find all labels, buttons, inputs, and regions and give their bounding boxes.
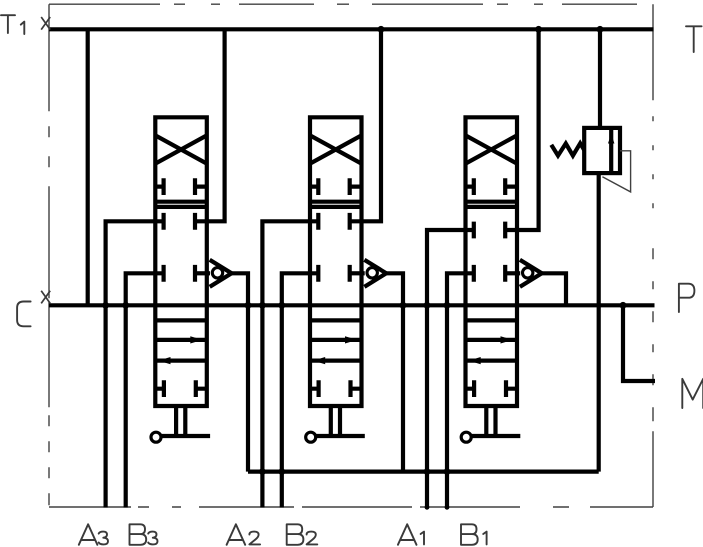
valve section 2 work-port row (position 2) — [318, 213, 349, 230]
port label T1 — [1, 15, 24, 34]
wire: section 3 check valve output — [232, 273, 248, 471]
valve section 3 work-port row (position 2) — [164, 213, 195, 230]
wire: T rail to P/C gallery (open center) — [86, 29, 90, 305]
wire: section 3 tank branch to T rail — [195, 29, 225, 221]
manual lever actuator of section 3 — [151, 406, 210, 442]
P / C pressure gallery line — [49, 303, 655, 307]
valve section 2 blocked-port row (position 3 bottom) — [310, 380, 362, 397]
T tank rail — [49, 27, 654, 31]
bottom tank return line — [248, 470, 599, 474]
valve section 1 blocked-port row (position 1 bottom) — [466, 178, 518, 195]
port marker x at C — [41, 291, 50, 304]
valve section 3 crossed-arrows position — [155, 135, 207, 163]
check valve of section 3 — [195, 260, 232, 287]
valve section 2 body outline — [310, 117, 362, 406]
manual lever actuator of section 2 — [306, 406, 365, 442]
valve section 3 work-port row (position 3) — [164, 265, 195, 282]
port label P — [679, 284, 695, 312]
port marker x at T1 — [41, 17, 50, 30]
wire: section 1 B work-port line — [447, 273, 474, 507]
valve section 1 work-port row (position 3) — [474, 265, 505, 282]
check valve of section 1 — [505, 260, 542, 287]
port label M — [682, 379, 703, 408]
wire: section 3 B work-port line — [126, 273, 164, 507]
valve section 3 body outline — [155, 117, 207, 406]
wire: section 1 A work-port line — [427, 230, 474, 508]
valve section 2 neutral flow path lines — [310, 320, 362, 364]
valve section 3 blocked-port row (position 3 bottom) — [155, 380, 207, 397]
port label T — [686, 26, 702, 52]
valve section 3 neutral flow path lines — [155, 320, 207, 364]
valve section 1 body outline — [466, 117, 518, 406]
port label A1 — [398, 524, 424, 545]
port label A3 — [79, 524, 108, 545]
valve section 2 crossed-arrows position — [310, 135, 362, 163]
valve section 1 work-port row (position 2) — [474, 222, 505, 239]
port label B3 — [130, 524, 158, 545]
wire: section 1 check valve output — [542, 273, 566, 305]
enclosure boundary (dash-dot envelope) — [49, 4, 653, 507]
wire: section 3 A work-port line — [106, 221, 164, 507]
valve section 1 neutral flow path lines — [466, 320, 518, 364]
wire: section 1 tank branch to T rail — [505, 29, 538, 230]
port label C — [17, 302, 31, 327]
port label A2 — [227, 524, 261, 545]
port label B2 — [287, 524, 318, 545]
check valve of section 2 — [350, 260, 387, 287]
valve section 3 blocked-port row (position 1 bottom) — [155, 178, 207, 195]
wire: M gauge port branch — [623, 305, 655, 381]
valve section 2 work-port row (position 3) — [318, 265, 349, 282]
valve section 2 blocked-port row (position 1 bottom) — [310, 178, 362, 195]
valve section 1 blocked-port row (position 3 bottom) — [466, 380, 518, 397]
wire: section 2 tank branch to T rail — [350, 29, 381, 221]
wire: section 2 check valve output — [386, 273, 403, 471]
wire: section 2 B work-port line — [282, 273, 319, 507]
manual lever actuator of section 1 — [461, 406, 520, 442]
valve section 1 crossed-arrows position — [466, 135, 518, 163]
pressure relief valve — [551, 29, 630, 471]
port label B1 — [461, 524, 487, 545]
wire: section 2 A work-port line — [262, 221, 318, 507]
